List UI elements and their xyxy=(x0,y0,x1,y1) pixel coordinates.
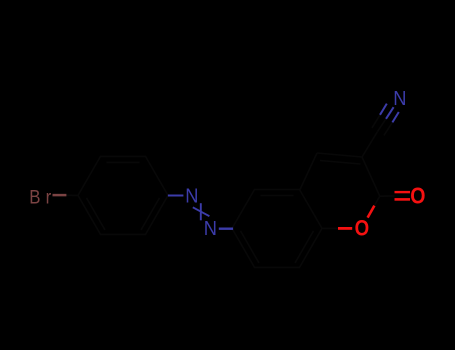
svg-text:N: N xyxy=(204,218,217,240)
svg-text:N: N xyxy=(393,88,406,110)
svg-text:O: O xyxy=(410,183,425,209)
svg-text:Br: Br xyxy=(29,185,56,208)
svg-text:O: O xyxy=(355,217,370,241)
svg-text:N: N xyxy=(185,185,198,207)
